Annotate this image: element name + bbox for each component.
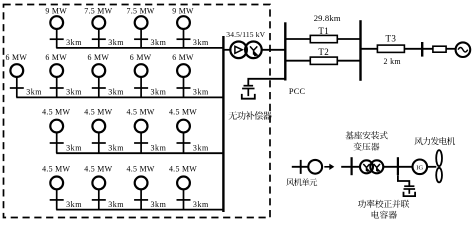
wind turbine generator G4-2 — [92, 177, 106, 210]
wind turbine generator G2-2 — [50, 64, 64, 97]
wind turbine generator G1-2 — [92, 16, 106, 48]
wire: feeder row 4 bus to collector — [56, 209, 223, 211]
wind turbine generator G2-1 — [10, 64, 24, 97]
svg-text:3km: 3km — [66, 144, 82, 153]
wind turbine generator G2-4 — [134, 64, 148, 97]
wind turbine generator G4-1 — [50, 177, 64, 210]
wire: generator shaft to rotor — [427, 166, 436, 168]
wire: PCC to T3 — [361, 48, 378, 50]
wind turbine generator G4-3 — [134, 177, 148, 210]
power factor correction shunt capacitor — [404, 186, 416, 196]
label: wind power generator 风力发电机 — [415, 137, 456, 145]
svg-text:3km: 3km — [108, 38, 124, 47]
svg-text:4.5 MW: 4.5 MW — [169, 108, 197, 117]
pad-mounted transformer two-winding — [360, 160, 383, 173]
bus bar: PCC — [359, 20, 361, 81]
wind turbine generator G2-5 — [177, 64, 191, 97]
label: PFC capacitor line1 功率校正并联 — [358, 200, 409, 208]
wind turbine generator G3-4 — [177, 120, 191, 154]
svg-text:3km: 3km — [108, 88, 124, 97]
wire: stub into wind turbine unit — [292, 166, 309, 168]
node tick at unit terminal — [300, 160, 302, 174]
svg-text:2 km: 2 km — [383, 57, 401, 66]
wire: T3 to grid bus — [404, 48, 433, 50]
svg-text:3km: 3km — [108, 144, 124, 153]
transmission line T3 box — [377, 45, 404, 52]
svg-text:3km: 3km — [26, 88, 42, 97]
wind turbine generator G1-3 — [134, 16, 148, 48]
svg-text:3km: 3km — [66, 200, 82, 209]
reactive power compensator shunt capacitor — [242, 86, 255, 99]
svg-text:T3: T3 — [385, 34, 396, 44]
label: PFC capacitor line2 电容器 — [372, 211, 397, 219]
wind rotor blades — [436, 150, 442, 182]
generator bus tick — [397, 157, 399, 175]
label: reactive power compensator 无功补偿器 — [229, 111, 272, 120]
svg-text:3km: 3km — [193, 38, 209, 47]
wind turbine generator G1-1 — [50, 16, 64, 48]
svg-text:3km: 3km — [108, 200, 124, 209]
svg-text:3km: 3km — [193, 144, 209, 153]
label: pad-mounted transformer line1 基座安装式 — [346, 131, 388, 139]
wire: transformer to generator — [383, 166, 412, 168]
svg-text:9 MW: 9 MW — [45, 6, 67, 15]
grid bus tick — [421, 42, 423, 57]
transmission line T1 box — [310, 35, 337, 42]
wind turbine generator G3-2 — [92, 120, 106, 154]
svg-text:4.5 MW: 4.5 MW — [84, 164, 112, 173]
svg-text:4.5 MW: 4.5 MW — [42, 164, 70, 173]
svg-text:6 MW: 6 MW — [6, 53, 28, 62]
label: wind turbine unit 风机单元 — [286, 178, 317, 186]
svg-text:3km: 3km — [151, 88, 167, 97]
svg-text:IG: IG — [416, 164, 423, 171]
wind turbine generator G3-3 — [134, 120, 148, 154]
svg-text:6 MW: 6 MW — [130, 53, 152, 62]
wire: line T1 right segment — [337, 38, 360, 40]
wind turbine unit circle — [308, 160, 322, 174]
svg-text:PCC: PCC — [289, 87, 306, 96]
svg-text:3km: 3km — [151, 38, 167, 47]
wire: compensator branch from HV bus — [248, 79, 285, 86]
PFC branch wire — [398, 175, 409, 186]
wire: transformer HV side to wind farm HV bus — [262, 49, 286, 51]
svg-text:T2: T2 — [318, 47, 329, 57]
svg-text:4.5 MW: 4.5 MW — [127, 108, 155, 117]
wire: line T2 right segment — [337, 60, 360, 62]
svg-text:T1: T1 — [318, 26, 329, 36]
wire: impedance to grid source — [446, 48, 456, 50]
wind farm boundary dashed box — [4, 5, 271, 218]
wire: feeder row 2 bus to collector — [16, 96, 223, 98]
svg-text:4.5 MW: 4.5 MW — [84, 108, 112, 117]
svg-text:4.5 MW: 4.5 MW — [127, 164, 155, 173]
induction generator IG — [413, 160, 428, 175]
svg-text:9 MW: 9 MW — [172, 6, 194, 15]
transmission line T2 box — [310, 57, 337, 64]
svg-text:7.5 MW: 7.5 MW — [84, 6, 112, 15]
svg-text:3km: 3km — [193, 200, 209, 209]
svg-text:6 MW: 6 MW — [45, 53, 67, 62]
collector bus 34.5 kV vertical — [222, 36, 224, 212]
grid equivalent AC source — [456, 42, 471, 57]
grid equivalent impedance box — [433, 46, 446, 52]
svg-text:3km: 3km — [151, 144, 167, 153]
wire: line T1 left segment — [285, 38, 310, 40]
label: pad-mounted transformer line2 变压器 — [354, 142, 380, 150]
LV bus tick — [351, 157, 353, 175]
wire: feeder row 1 bus to collector — [56, 47, 223, 49]
svg-text:4.5 MW: 4.5 MW — [42, 108, 70, 117]
wire: collector bus to main transformer — [223, 49, 231, 51]
svg-text:7.5 MW: 7.5 MW — [127, 6, 155, 15]
arrow referring to detail — [324, 164, 334, 170]
wind turbine generator G2-3 — [92, 64, 106, 97]
svg-text:3km: 3km — [151, 200, 167, 209]
svg-text:3km: 3km — [66, 88, 82, 97]
bus bar: wind farm HV bus — [284, 22, 286, 80]
svg-text:29.8km: 29.8km — [314, 13, 341, 23]
wire: line T2 left segment — [285, 60, 310, 62]
svg-text:3km: 3km — [193, 88, 209, 97]
wind turbine generator G4-4 — [177, 177, 191, 210]
svg-text:6 MW: 6 MW — [88, 53, 110, 62]
svg-text:3km: 3km — [66, 38, 82, 47]
wire: feeder row 3 bus to collector — [56, 152, 223, 154]
wind turbine generator G1-4 — [177, 16, 191, 48]
wind turbine generator G3-1 — [50, 120, 64, 154]
svg-text:4.5 MW: 4.5 MW — [169, 164, 197, 173]
main step-up transformer 34.5/115 kV delta-wye — [230, 42, 261, 59]
svg-text:34.5/115 kV: 34.5/115 kV — [226, 30, 265, 39]
svg-text:6 MW: 6 MW — [172, 53, 194, 62]
wire: unit LV terminal — [341, 166, 360, 168]
